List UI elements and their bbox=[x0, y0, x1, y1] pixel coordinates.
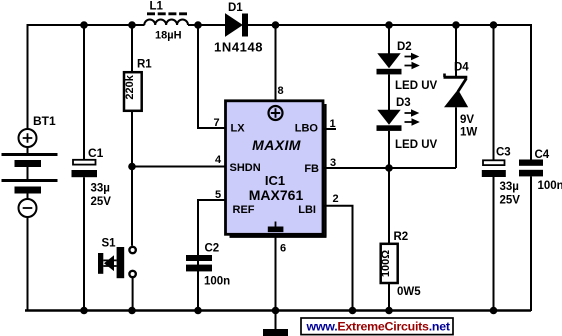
svg-text:MAX761: MAX761 bbox=[249, 187, 304, 203]
op-amp / IC1 MAX761 body bbox=[226, 101, 327, 237]
svg-text:SHDN: SHDN bbox=[230, 162, 261, 174]
node dot top rail / C1 bbox=[80, 21, 88, 29]
svg-text:REF: REF bbox=[233, 204, 255, 216]
node dot top rail / D4 bbox=[452, 21, 460, 29]
ground symbol bbox=[263, 312, 288, 336]
capacitor C1 bbox=[72, 160, 98, 177]
resistor R2 bbox=[381, 244, 398, 283]
svg-text:3: 3 bbox=[330, 157, 336, 169]
svg-text:33µ: 33µ bbox=[91, 183, 110, 195]
wire C3 upper bbox=[493, 25, 495, 160]
svg-text:LBO: LBO bbox=[295, 123, 319, 135]
wire D2-D3 bbox=[388, 74, 390, 110]
wire top rail (L1 to D1 anode) bbox=[188, 24, 226, 26]
svg-text:9V: 9V bbox=[460, 114, 474, 126]
wire D3 to FB node bbox=[388, 131, 390, 168]
svg-text:D2: D2 bbox=[397, 41, 412, 53]
switch S1 bbox=[98, 247, 136, 278]
node dot SHDN junction bbox=[128, 163, 136, 171]
svg-text:100n: 100n bbox=[204, 276, 230, 288]
wire D4 top bbox=[455, 25, 457, 76]
svg-text:7: 7 bbox=[214, 117, 220, 129]
node dot bottom rail / LBI bbox=[349, 307, 357, 315]
wire C1 branch upper bbox=[83, 25, 85, 159]
svg-text:6: 6 bbox=[280, 243, 286, 255]
wire R2 bottom bbox=[388, 284, 390, 311]
svg-text:220k: 220k bbox=[124, 74, 136, 99]
inductor L1 bbox=[144, 14, 188, 25]
svg-text:LED UV: LED UV bbox=[395, 139, 438, 151]
node dot top rail / R1 bbox=[128, 21, 136, 29]
wire battery branch lower bbox=[27, 217, 29, 310]
svg-text:8: 8 bbox=[278, 85, 284, 97]
svg-text:C3: C3 bbox=[496, 147, 511, 159]
svg-text:100n: 100n bbox=[538, 180, 562, 192]
wire pin 1 stub (LBO) bbox=[324, 128, 336, 130]
svg-text:5: 5 bbox=[215, 189, 221, 201]
svg-text:LED UV: LED UV bbox=[395, 80, 438, 92]
node dot top rail / pin8 bbox=[272, 21, 280, 29]
battery BT1 bbox=[2, 129, 58, 217]
wire C3 lower bbox=[493, 177, 495, 310]
svg-text:C4: C4 bbox=[535, 149, 550, 161]
svg-text:www.ExtremeCircuits.net: www.ExtremeCircuits.net bbox=[306, 320, 450, 334]
LED D3 bbox=[377, 109, 420, 131]
LED D2 bbox=[377, 53, 420, 75]
svg-text:D1: D1 bbox=[228, 2, 243, 14]
svg-text:LX: LX bbox=[231, 123, 246, 135]
wire C4 lower bbox=[530, 176, 532, 311]
zener diode D4 bbox=[444, 74, 469, 108]
wire SHDN (pin4) bbox=[132, 166, 225, 168]
wire C4 upper bbox=[530, 24, 532, 160]
capacitor C4 bbox=[519, 160, 543, 177]
node dot bottom rail / C3 bbox=[490, 307, 498, 315]
capacitor C2 bbox=[186, 255, 212, 271]
node dot bottom rail / R2 bbox=[385, 307, 393, 315]
svg-text:0W5: 0W5 bbox=[397, 286, 421, 298]
wire R1 top bbox=[131, 25, 133, 71]
svg-text:D4: D4 bbox=[454, 62, 469, 74]
svg-text:2: 2 bbox=[333, 193, 339, 205]
wire bottom ground rail bbox=[25, 309, 531, 312]
wire pin 8 drop bbox=[275, 25, 277, 100]
wire D2 top bbox=[388, 25, 390, 54]
capacitor C3 bbox=[482, 160, 506, 177]
node dot bottom rail / C1 bbox=[80, 307, 88, 315]
node dot FB / LED / R2 bbox=[385, 164, 393, 172]
svg-text:R2: R2 bbox=[394, 231, 409, 243]
svg-text:LBI: LBI bbox=[298, 204, 316, 216]
wire battery branch upper bbox=[27, 24, 29, 129]
svg-text:1N4148: 1N4148 bbox=[214, 40, 263, 55]
diode D1 1N4148 bbox=[226, 14, 249, 37]
wire LX riser bbox=[198, 25, 225, 128]
svg-text:33µ: 33µ bbox=[500, 181, 519, 193]
wire LBI (pin2) drop bbox=[324, 206, 353, 310]
svg-text:IC1: IC1 bbox=[265, 173, 285, 188]
IC1 ground terminal symbol bbox=[268, 222, 284, 233]
node dot bottom rail / C2 bbox=[194, 307, 202, 315]
wire REF (pin5) and C2 drop bbox=[198, 200, 225, 310]
website badge bbox=[301, 318, 453, 335]
svg-text:MAXIM: MAXIM bbox=[252, 137, 301, 153]
wire top rail left (battery+ to L1) bbox=[28, 24, 145, 26]
node dot top rail / L1-D1-LX bbox=[194, 21, 202, 29]
node dot bottom rail / S1 bbox=[128, 307, 136, 315]
svg-text:25V: 25V bbox=[91, 196, 112, 208]
svg-text:100Ω: 100Ω bbox=[380, 250, 392, 277]
wire S1 bottom bbox=[132, 278, 134, 310]
svg-text:4: 4 bbox=[215, 154, 222, 166]
svg-text:1: 1 bbox=[330, 118, 336, 130]
wire FB node to R2 bbox=[388, 168, 390, 244]
resistor R1 bbox=[124, 72, 142, 111]
svg-text:C1: C1 bbox=[88, 146, 104, 160]
svg-text:1W: 1W bbox=[460, 127, 477, 139]
IC1 plus terminal symbol bbox=[269, 106, 283, 120]
svg-text:18µH: 18µH bbox=[155, 30, 182, 42]
wire R1 bottom to S1 bbox=[131, 111, 133, 246]
svg-text:L1: L1 bbox=[150, 1, 164, 13]
svg-text:R1: R1 bbox=[137, 59, 152, 71]
wire FB (pin3) to zener bbox=[324, 167, 456, 169]
node dot top rail / D2 bbox=[385, 21, 393, 29]
svg-text:D3: D3 bbox=[396, 97, 411, 109]
wire pin 6 drop bbox=[275, 236, 277, 310]
node dot bottom rail / pin6 bbox=[272, 307, 280, 315]
svg-text:S1: S1 bbox=[102, 238, 117, 250]
node dot top rail / C3 bbox=[490, 21, 498, 29]
svg-text:FB: FB bbox=[304, 163, 319, 175]
wire D4 bottom to FB wire bbox=[455, 107, 457, 168]
wire C1 branch lower bbox=[83, 177, 85, 310]
svg-text:C2: C2 bbox=[205, 243, 220, 255]
svg-text:25V: 25V bbox=[500, 195, 521, 207]
wire top rail (D1 cathode to C4 corner) bbox=[248, 24, 531, 26]
svg-text:BT1: BT1 bbox=[33, 114, 56, 128]
